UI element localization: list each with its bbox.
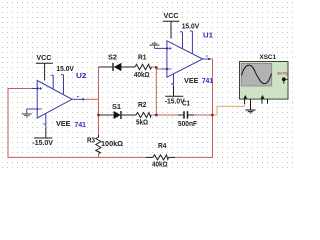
- ground at U2 inverting input: [22, 109, 38, 118]
- VEE power symbol for U1: [165, 86, 183, 96]
- wire vertical junction x=156.3 down to lower branch: [155, 67, 157, 115]
- svg-text:VCC: VCC: [164, 13, 179, 20]
- svg-text:Ext Trig: Ext Trig: [278, 72, 289, 76]
- svg-text:741: 741: [75, 122, 87, 129]
- wire left feedback loop to U2 + input: [8, 89, 146, 158]
- svg-text:S1: S1: [112, 104, 121, 111]
- wire U1 output to vertical: [210, 58, 213, 60]
- svg-text:15.0V: 15.0V: [182, 24, 200, 31]
- svg-text:XSC1: XSC1: [260, 54, 277, 61]
- resistor R1 40k: [135, 64, 152, 69]
- svg-text:40kΩ: 40kΩ: [152, 162, 168, 169]
- svg-text:741: 741: [202, 78, 213, 85]
- svg-text:VEE: VEE: [56, 121, 71, 128]
- wire R3 bottom to bottom rail: [98, 154, 100, 157]
- op-amp U1 plus minus marks: [169, 47, 172, 69]
- svg-text:U2: U2: [76, 73, 87, 80]
- scope terminal A- with ground: [246, 99, 256, 113]
- svg-text:15.0V: 15.0V: [56, 66, 74, 73]
- diode S2 pointing left: [112, 63, 136, 71]
- junction dot at x=212.5 y=115: [211, 114, 214, 117]
- resistor R2 5k: [136, 113, 151, 118]
- svg-text:R4: R4: [158, 143, 167, 150]
- resistor R4 40k horizontal: [146, 155, 175, 160]
- resistor R3 100k vertical: [96, 135, 101, 154]
- svg-text:-15.0V: -15.0V: [32, 140, 53, 147]
- wire junction to U1 inverting input: [156, 68, 162, 70]
- svg-text:5kΩ: 5kΩ: [136, 120, 148, 127]
- wire vertical branch node x=98.5: [98, 67, 100, 135]
- scope terminal B+: [261, 95, 265, 104]
- svg-text:VEE: VEE: [184, 78, 199, 85]
- wire junction to C1 left: [156, 114, 178, 116]
- VCC power symbol for U1: [163, 21, 180, 38]
- svg-text:100kΩ: 100kΩ: [101, 141, 123, 148]
- svg-text:R3: R3: [87, 138, 95, 145]
- ground at U1 non-inverting input: [150, 42, 167, 48]
- op-amp U2 triangle 741: [32, 75, 84, 128]
- oscilloscope XSC1: [240, 62, 289, 100]
- svg-text:500nF: 500nF: [178, 121, 198, 128]
- svg-text:R2: R2: [138, 102, 147, 109]
- op-amp U1 triangle 741: [162, 31, 210, 86]
- scope terminal A+: [243, 95, 247, 104]
- diode S1 pointing right: [113, 111, 136, 119]
- wire C1 right to output node: [194, 114, 213, 116]
- wire R2 right to junction: [151, 114, 156, 116]
- junction dot at x=156.3 y=67.5: [155, 66, 158, 69]
- VCC power symbol for U2: [36, 63, 53, 80]
- wire R1 right to junction at x=156.3: [152, 66, 157, 68]
- svg-text:VCC: VCC: [36, 55, 51, 62]
- op-amp U2 pin dots: [37, 87, 39, 89]
- op-amp U1 pin dots: [166, 47, 168, 49]
- wire orange to oscilloscope input A: [214, 104, 245, 116]
- wire S2 branch left: [99, 66, 112, 68]
- svg-text:40kΩ: 40kΩ: [134, 72, 150, 79]
- op-amp U2 plus minus marks: [39, 87, 42, 109]
- junction dot at x=98.5 y=115: [97, 114, 100, 117]
- wire S1 branch left: [99, 114, 114, 116]
- VEE power symbol for U2: [34, 128, 52, 138]
- svg-text:R1: R1: [138, 54, 147, 61]
- junction dot at x=156.3 y=115: [155, 114, 158, 117]
- capacitor C1 500nF: [178, 111, 194, 119]
- ext trig terminal: [282, 77, 288, 83]
- svg-text:S2: S2: [108, 55, 117, 62]
- wire U2 output to junction: [84, 98, 99, 100]
- svg-text:U1: U1: [203, 33, 213, 40]
- svg-text:C1: C1: [182, 100, 190, 107]
- wire bottom right of R4 to node: [175, 59, 213, 157]
- scope terminal B-: [267, 99, 269, 104]
